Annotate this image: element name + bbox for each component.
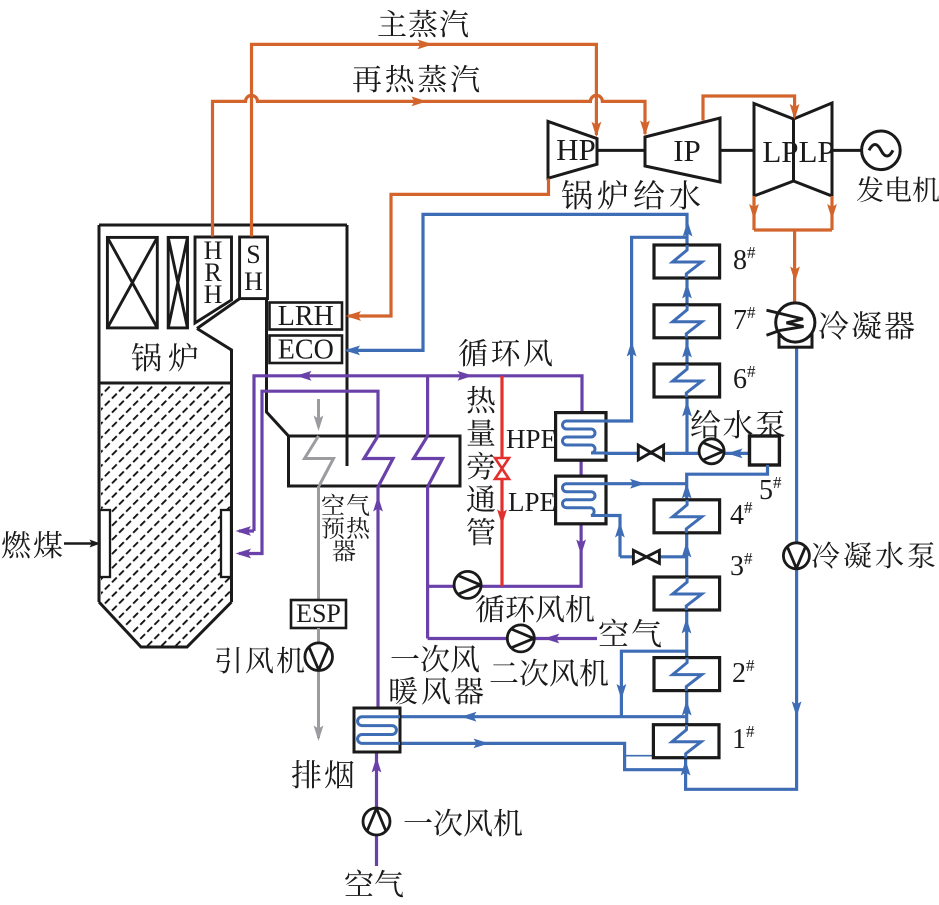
label yicifengji	[404, 809, 522, 837]
label zaire	[353, 65, 479, 93]
burner port right	[221, 510, 231, 577]
label yinfengji	[216, 647, 304, 674]
circulating fan	[454, 571, 481, 598]
HRH text	[204, 236, 223, 309]
label reliang	[467, 386, 495, 546]
label lengningshuibeng	[812, 541, 935, 568]
wire HPE/LPE link	[579, 460, 582, 476]
condenser cooling zigzag	[767, 310, 804, 335]
heater 3#	[654, 577, 720, 610]
LPE feed valve	[633, 550, 659, 563]
HPE coil	[563, 421, 607, 453]
wire LPE to circ fan	[428, 524, 581, 587]
label paiyan	[292, 760, 354, 789]
heater 6#	[654, 364, 720, 397]
feedwater valve	[638, 445, 663, 460]
condenser hotwell	[779, 332, 812, 348]
label ranmei	[2, 531, 62, 559]
svg-text:H: H	[244, 267, 263, 296]
label kongqi_yu1	[322, 494, 369, 516]
wire flue gas to preheater	[305, 399, 334, 600]
wire primary air bottom	[375, 753, 378, 867]
LRH box	[270, 303, 343, 330]
label kongqi_yu3	[333, 540, 356, 562]
wire HPE feed from pump line	[606, 452, 639, 455]
wire 4# to 5#	[687, 465, 768, 500]
secondary air fan	[507, 625, 534, 652]
svg-text:LPE: LPE	[508, 487, 556, 517]
wire preheater top to circ line	[426, 376, 429, 436]
label xunhuanfeng	[459, 339, 552, 367]
preheater zigzag primary	[364, 436, 393, 486]
label yicifeng	[391, 645, 479, 673]
wire IP-LP crossover	[703, 96, 795, 121]
svg-text:HPE: HPE	[506, 424, 557, 454]
label kongqi_r	[599, 619, 661, 648]
LPE box	[556, 476, 606, 524]
bypass valve (red)	[495, 458, 509, 479]
burner port left	[100, 510, 110, 577]
wire hot primary air to furnace	[239, 391, 378, 553]
svg-text:HP: HP	[556, 132, 596, 167]
label kongqi_b	[345, 870, 403, 898]
wire 2# to 3#	[685, 610, 688, 658]
heater 8#	[654, 245, 720, 278]
turbine IP	[645, 118, 720, 182]
ECO box	[270, 336, 343, 364]
SH box	[240, 237, 268, 299]
furnace hatch	[101, 385, 230, 646]
primary air fan	[363, 808, 390, 835]
wire feedwater main riser	[347, 214, 687, 453]
svg-text:ESP: ESP	[296, 599, 341, 628]
label fadianji	[857, 176, 939, 202]
label nuanfengqi	[390, 677, 483, 705]
svg-text:IP: IP	[673, 133, 701, 168]
heater 1#	[653, 725, 719, 758]
wire main steam	[252, 44, 597, 236]
turbine LP (double flow)	[754, 103, 832, 196]
induced draft fan	[305, 643, 333, 671]
warm air heater box	[354, 708, 400, 752]
wire primary air riser	[376, 486, 379, 708]
svg-text:H: H	[204, 280, 223, 309]
heater 4#	[654, 500, 720, 533]
label zhuzhengqi	[378, 10, 468, 38]
SH text	[244, 240, 263, 296]
label geishuibeng	[691, 410, 785, 439]
deaerator tank 5#	[750, 436, 780, 465]
label lengningqi	[819, 311, 914, 340]
boiler outline	[99, 225, 347, 647]
turbine HP	[548, 121, 597, 178]
HRH box	[195, 237, 232, 323]
wire hot reheat	[213, 95, 646, 236]
label xunhuanfengji	[476, 595, 594, 623]
wire secondary air	[428, 637, 597, 640]
wire HPE return riser	[606, 237, 688, 421]
heater 7#	[654, 305, 720, 338]
LPE coil	[563, 484, 607, 516]
svg-text:LPLP: LPLP	[762, 134, 834, 169]
svg-text:LRH: LRH	[278, 301, 334, 332]
wire pump suction line	[639, 452, 750, 455]
boiler panel 2 (narrow X box)	[168, 237, 187, 328]
wire preheater bottom riser	[426, 486, 429, 639]
condensate pump	[783, 543, 809, 569]
svg-text:ECO: ECO	[278, 335, 334, 366]
wire air-heater return	[400, 743, 687, 769]
condenser	[776, 303, 815, 342]
label ercifengji	[491, 659, 609, 687]
wire heat bypass pipe	[500, 376, 503, 587]
ESP box	[291, 600, 346, 628]
generator	[862, 131, 901, 170]
warm air heater coil	[358, 717, 400, 744]
wire LPE feed	[606, 516, 686, 557]
wire drain link thin	[625, 755, 687, 757]
svg-text:S: S	[246, 240, 260, 269]
wire heater supply branch	[621, 651, 686, 717]
wire air-heater supply	[400, 715, 687, 718]
label guolugeishui	[562, 180, 700, 210]
preheater zigzag secondary	[414, 436, 443, 486]
wire circulating air main	[239, 376, 582, 531]
coal arrow	[64, 540, 101, 548]
air preheater box	[289, 436, 461, 486]
label guolu	[132, 343, 198, 372]
wire 3# to 4#	[685, 532, 688, 577]
boiler panel 1 (X box)	[107, 237, 157, 328]
feed pump	[699, 439, 724, 464]
wire condensate from condenser	[686, 347, 797, 789]
wire LPE return	[606, 482, 687, 485]
shaft lines	[597, 149, 862, 152]
HPE box	[556, 413, 606, 461]
label kongqi_yu2	[322, 517, 369, 539]
wire 1# to 2#	[685, 691, 688, 725]
wire ESP to stack	[317, 628, 320, 738]
heater 2#	[654, 658, 720, 691]
wire cold reheat	[348, 179, 549, 317]
wire LP exhaust	[754, 196, 832, 302]
